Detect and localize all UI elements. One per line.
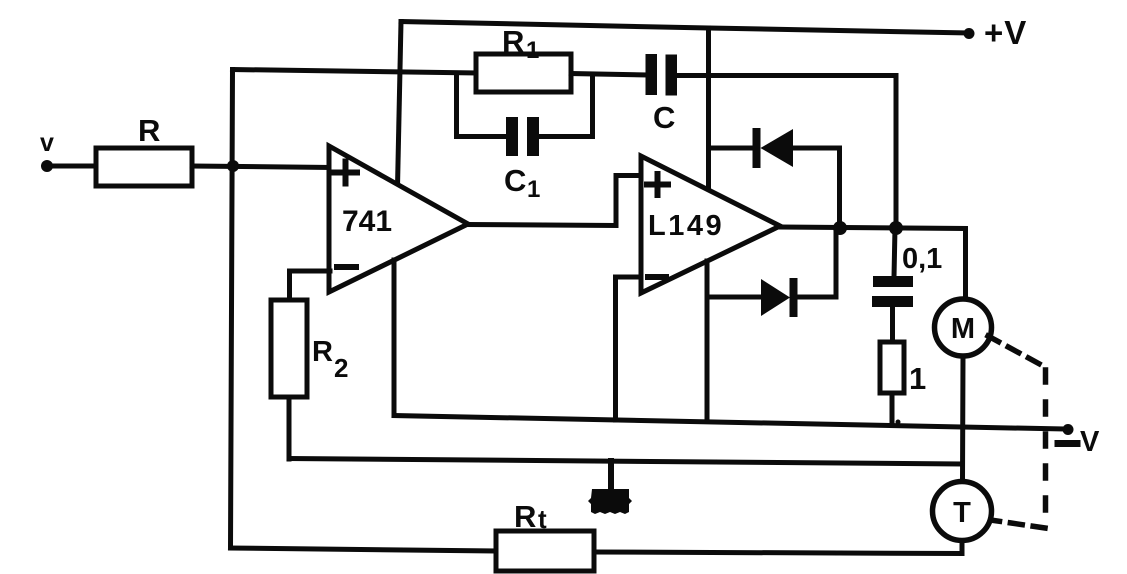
label -V xyxy=(1058,440,1077,447)
wire diode D1 anode branch xyxy=(709,146,755,151)
svg-text:C: C xyxy=(504,163,526,198)
wire resistor 1 to -V rail xyxy=(890,393,895,425)
wire C1 branch right leg xyxy=(539,75,593,137)
wire +V rail top xyxy=(401,22,968,34)
U1 minus marker xyxy=(337,264,356,270)
wire R2 to common rail xyxy=(287,397,292,459)
resistor R1 xyxy=(476,54,571,92)
node -V terminal dot xyxy=(1063,424,1074,435)
resistor R2 xyxy=(271,300,307,397)
svg-text:V: V xyxy=(1080,426,1100,458)
capacitor C right plate xyxy=(666,55,678,96)
ground block xyxy=(588,489,632,514)
U1 plus marker xyxy=(334,162,357,184)
wire C to output column xyxy=(677,76,896,225)
svg-text:741: 741 xyxy=(342,205,392,238)
capacitor C1 left plate xyxy=(506,117,518,156)
capacitor C1 right plate xyxy=(527,117,539,156)
wire L149 V- to -V rail xyxy=(705,261,710,420)
svg-text:+V: +V xyxy=(984,14,1027,51)
svg-text:1: 1 xyxy=(909,361,926,396)
wire feedback column vertical xyxy=(231,70,233,549)
svg-text:M: M xyxy=(951,313,975,345)
diode D2 cathode bar xyxy=(790,278,798,317)
-V rail xyxy=(394,416,1063,430)
node output junction dot right xyxy=(889,221,903,235)
wire 741 V- to -V rail xyxy=(392,260,397,416)
svg-text:t: t xyxy=(538,504,547,534)
motor M circle xyxy=(935,299,992,356)
node input terminal v dot xyxy=(41,160,53,172)
op-amp U2 L149 body xyxy=(641,156,780,293)
svg-text:v: v xyxy=(40,129,54,157)
svg-text:1: 1 xyxy=(527,176,540,203)
wire feedback top run to R1 xyxy=(233,70,477,74)
wire diode D2 anode branch xyxy=(707,295,761,300)
wire +V drop to 741 V+ pin xyxy=(398,22,402,188)
wire ground stub xyxy=(608,461,614,490)
U2 plus marker xyxy=(647,174,668,195)
svg-text:R: R xyxy=(138,113,160,148)
wire D1 to output node xyxy=(793,148,840,228)
wire 741 output to L149 + input xyxy=(468,176,641,226)
wire T bottom to Rt run xyxy=(595,541,963,554)
svg-text:R: R xyxy=(514,499,536,534)
node small dot at rail xyxy=(896,420,901,425)
wire R1 to C xyxy=(571,74,646,76)
wire L149 output run xyxy=(780,227,966,299)
wire C2 to resistor 1 xyxy=(890,307,895,343)
mechanical coupling dashed vertical xyxy=(1043,370,1049,528)
capacitor C2 bottom plate xyxy=(872,296,913,307)
wire Rt to feedback column xyxy=(231,548,497,551)
diode D2 body xyxy=(761,279,790,316)
svg-text:R: R xyxy=(312,336,333,368)
svg-text:2: 2 xyxy=(334,353,348,383)
diode D1 cathode bar xyxy=(753,128,761,168)
svg-text:C: C xyxy=(653,100,675,135)
wire +V drop to L149 V+ pin xyxy=(706,28,711,190)
resistor Rt xyxy=(496,531,594,571)
wire L149 minus input to -V rail xyxy=(616,277,642,420)
svg-text:0,1: 0,1 xyxy=(902,243,942,275)
tachometer T circle xyxy=(933,482,992,541)
capacitor C2 top plate xyxy=(873,276,913,287)
common rail to R2 and ground xyxy=(289,459,960,465)
U2 minus marker xyxy=(648,274,666,280)
svg-text:R: R xyxy=(502,24,524,59)
op-amp U1 741 body xyxy=(329,146,468,292)
resistor R3 value 1 xyxy=(880,342,904,393)
node output junction dot left xyxy=(833,221,847,235)
svg-text:L149: L149 xyxy=(648,210,724,242)
wire R to 741 + input xyxy=(192,166,330,168)
wire output node to capacitor C2 xyxy=(894,228,895,277)
svg-text:T: T xyxy=(953,497,971,529)
svg-text:1: 1 xyxy=(526,37,539,64)
capacitor C left plate xyxy=(646,54,658,95)
node +V terminal dot xyxy=(964,28,975,39)
diode D1 body xyxy=(761,129,794,167)
node input junction dot xyxy=(227,160,239,172)
resistor R xyxy=(96,148,192,186)
wire D2 to output node xyxy=(797,228,836,297)
wire C1 branch left leg xyxy=(457,73,508,137)
wire input to R xyxy=(47,164,96,169)
mechanical coupling dashed T side xyxy=(994,521,1045,529)
mechanical coupling dashed M side xyxy=(988,336,1046,368)
wire M to T xyxy=(960,356,966,481)
wire 741 minus input to R2 xyxy=(290,271,331,301)
